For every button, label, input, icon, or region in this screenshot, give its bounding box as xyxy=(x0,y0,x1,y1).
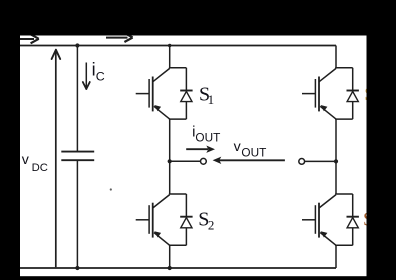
junction dot top bus / left leg xyxy=(168,44,171,47)
wire collector branch S1 xyxy=(169,67,187,69)
junction dot left leg output node xyxy=(168,159,172,163)
junction dot top bus / capacitor xyxy=(75,43,79,47)
arrow vDC voltage reference xyxy=(55,52,57,268)
wire collector branch S2 xyxy=(169,193,187,195)
capacitor C bottom lead wire xyxy=(76,160,78,268)
svg-text:v: v xyxy=(234,139,242,155)
stray speck xyxy=(110,188,112,190)
svg-text:OUT: OUT xyxy=(195,131,220,145)
wire emitter branch S1 xyxy=(185,102,187,120)
wire emitter branch S4 xyxy=(352,228,354,246)
svg-text:1: 1 xyxy=(208,92,215,107)
wire emitter branch S2 xyxy=(185,228,187,246)
wire left leg lower xyxy=(169,245,171,268)
wire bottom DC bus xyxy=(20,267,336,269)
terminal circle left output xyxy=(201,158,207,164)
svg-text:2: 2 xyxy=(208,218,215,233)
wire left leg middle (S1 emitter to output node) xyxy=(169,119,171,194)
diode D2 xyxy=(180,217,192,228)
wire collector branch S3 xyxy=(335,67,353,69)
label S3 (clipped by frame) xyxy=(364,83,375,105)
capacitor C top lead wire xyxy=(76,46,78,152)
svg-text:C: C xyxy=(96,69,105,83)
svg-text:DC: DC xyxy=(32,162,48,174)
wire right leg middle xyxy=(335,119,337,194)
arrow vOUT output voltage reference xyxy=(219,159,285,161)
wire right leg lower xyxy=(335,245,337,268)
arrow iOUT output current xyxy=(186,148,208,150)
junction dot bottom bus / left leg xyxy=(168,266,172,270)
IGBT S4 xyxy=(302,195,336,246)
wire top DC bus xyxy=(20,45,336,47)
wire collector branch S4 xyxy=(335,193,353,195)
arrow top-left current direction xyxy=(20,34,39,43)
junction dot right leg output node xyxy=(334,159,338,163)
wire output stub left xyxy=(170,160,201,162)
label S4 (clipped by frame) xyxy=(363,208,374,230)
IGBT S1 xyxy=(136,68,170,119)
wire right leg upper xyxy=(335,46,337,69)
arrow iC capacitor current xyxy=(85,63,87,88)
IGBT S2 xyxy=(136,195,170,246)
wire left leg upper xyxy=(169,46,171,69)
terminal circle right output xyxy=(299,159,305,165)
wire output stub right xyxy=(305,160,336,162)
svg-text:OUT: OUT xyxy=(241,146,266,160)
capacitor C xyxy=(61,151,94,153)
diode D4 xyxy=(347,217,359,228)
IGBT S3 xyxy=(302,68,336,119)
junction dot bottom bus / capacitor xyxy=(75,266,79,270)
wire emitter branch S3 xyxy=(352,102,354,120)
svg-text:v: v xyxy=(22,152,30,168)
arrow top-middle current direction xyxy=(106,33,133,42)
diode D3 xyxy=(347,91,359,102)
diode D1 xyxy=(180,91,192,102)
